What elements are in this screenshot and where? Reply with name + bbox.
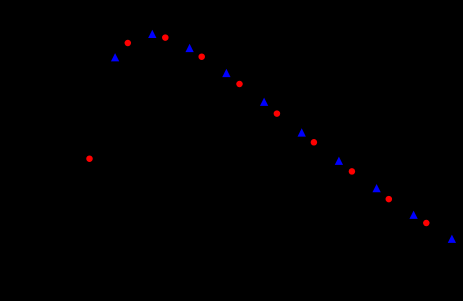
blue triangle marker T8: [372, 184, 380, 192]
blue triangle marker T4: [222, 69, 230, 77]
red circle marker C8: [386, 196, 393, 203]
red circle marker C6: [311, 139, 318, 146]
blue triangle marker T7: [335, 157, 343, 165]
blue triangle marker T9: [409, 211, 417, 219]
red circle marker C2: [162, 34, 169, 41]
red circle marker C7: [349, 168, 356, 175]
red circle marker C4: [236, 81, 243, 88]
red circle marker C3: [198, 53, 205, 60]
red circle marker C5: [274, 110, 281, 117]
blue triangle marker T5: [260, 98, 268, 106]
red circle marker C1: [125, 40, 132, 47]
red circle marker C0 (outlier point): [86, 155, 93, 162]
blue triangle marker T10: [448, 235, 456, 243]
blue triangle marker T3: [185, 44, 193, 52]
blue triangle marker T2: [148, 30, 156, 38]
blue triangle marker T6: [298, 128, 306, 136]
blue triangle marker T1: [111, 53, 119, 61]
red circle marker C9: [423, 220, 430, 227]
